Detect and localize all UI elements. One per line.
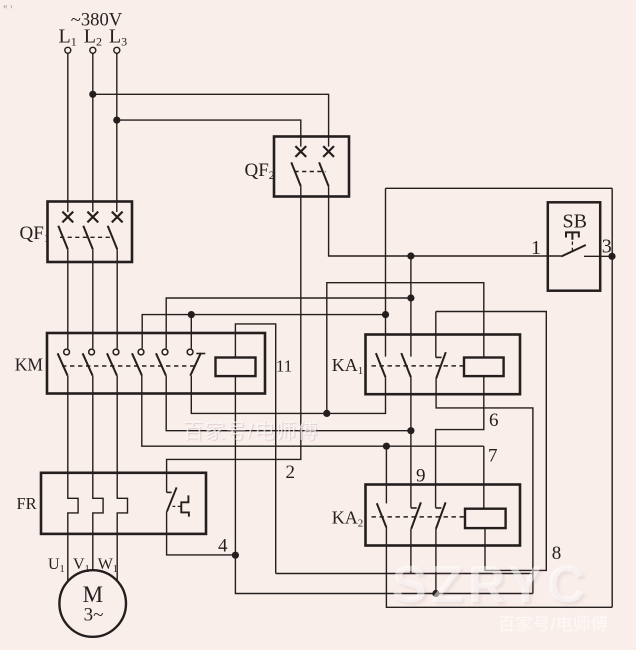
QF2 pole 1 X mark	[295, 146, 306, 157]
svg-text:7: 7	[488, 446, 498, 467]
KA2 linkage dashed line	[372, 516, 466, 518]
svg-text:M: M	[83, 582, 103, 607]
QF1 pole 1 X mark	[62, 212, 73, 223]
KA1 contact 1 blade	[376, 353, 386, 377]
wire from QF2 right pole to SB contact	[329, 186, 562, 256]
svg-text:4: 4	[218, 536, 228, 557]
junction SB terminal 3	[608, 253, 615, 260]
KM contact 3 blade	[107, 353, 117, 375]
wire node 6 horizontal rail from node 11	[276, 573, 533, 575]
thermal relay FR box	[41, 473, 206, 534]
terminal circle L3	[114, 47, 120, 53]
QF2 pole 2 X mark	[323, 146, 334, 157]
svg-text:6: 6	[489, 410, 499, 431]
QF1 linkage dashed line	[60, 236, 111, 238]
relay KA1 box	[366, 335, 521, 395]
QF1 pole 2 blade	[83, 226, 93, 250]
wire L1 QF1 to KM contact	[67, 249, 69, 348]
wire KM contact6 bottom to KA1 contact1 rail	[191, 376, 385, 414]
wire right-side vertical node 3 to node 8 bottom	[611, 188, 613, 607]
wire L3 QF1 to KM contact	[116, 249, 118, 348]
wire KA2 contact3 bottom	[435, 529, 437, 594]
svg-text:1: 1	[531, 237, 541, 259]
FR heater 1 phase wire L1 to motor	[68, 376, 78, 582]
relay KA2 box	[366, 485, 521, 546]
KM coil wire top with node 11 bridge	[235, 324, 275, 574]
junction KM coil bottom node 4	[232, 552, 239, 559]
svg-text:百家号/电师傅: 百家号/电师傅	[183, 420, 319, 443]
FR heater 3 phase wire L3 to motor	[117, 376, 127, 581]
KA1 contact 3 NC tick	[436, 356, 442, 358]
wire from L2 junction to QF2 right pole	[93, 94, 329, 146]
wire node 7 down to KA2 coil top	[483, 446, 485, 509]
terminal circle L1	[65, 47, 71, 53]
svg-text:11: 11	[276, 356, 292, 375]
KM linkage dashed line	[62, 365, 197, 367]
KA1 coil bottom wire to KA2 contact3	[436, 376, 484, 508]
wire KM contact 6 top stub	[190, 315, 192, 349]
wire L3 vertical to QF1	[116, 53, 118, 212]
svg-text:SZRYC: SZRYC	[392, 556, 589, 614]
junction at KM aux feed	[407, 294, 414, 301]
wire node 1 branch down to KM aux contact 5	[166, 256, 411, 349]
wire KA1 contact 2 top stub	[410, 298, 412, 357]
SB operator dashed link	[571, 242, 573, 253]
wire node 8 loop KA1 contact3 top to KA2 coil bottom	[436, 312, 547, 571]
junction KM contact6 tap	[188, 311, 195, 318]
terminal circle L2	[90, 47, 96, 53]
wire KA1 coil top loop	[327, 283, 484, 414]
KA2 contact 2 NC tick	[411, 507, 417, 509]
junction node 1 branch	[407, 252, 414, 259]
QF1 pole 1 blade	[58, 226, 68, 250]
coil KA1	[464, 358, 504, 377]
junction KA2 contact1 top tap	[383, 443, 390, 450]
KM contact 6 hook	[187, 349, 193, 355]
wire L2 vertical to QF1	[92, 53, 94, 212]
KM contact 6 NC blade	[190, 353, 201, 376]
FR trip contact top stub with NC tick	[167, 491, 172, 493]
QF1 pole 3 X mark	[112, 212, 123, 223]
QF1 pole 3 blade	[108, 226, 118, 250]
wire node 9 KA1 contact2 to KA2 contact2	[410, 377, 412, 508]
KM contact 1 blade	[58, 353, 68, 375]
KA1 linkage dashed line	[372, 365, 465, 367]
wire to KM aux contacts 4 and 6	[142, 315, 385, 349]
junction KA1 contact1 top	[382, 311, 389, 318]
wire node 2 from QF2 left pole down to FR trip contact	[167, 186, 301, 492]
contactor KM box	[47, 333, 265, 394]
KA1 contact 3 NC blade	[436, 352, 446, 379]
wire from L3 junction to QF2 left pole	[117, 120, 301, 147]
motor M circle	[59, 570, 126, 637]
wire KA2 contact1 bottom to node 3 rail	[386, 528, 612, 608]
wire node 3 top horizontal	[386, 187, 613, 189]
QF2 linkage dashed line	[295, 171, 326, 173]
SB contact blade	[561, 245, 586, 257]
KM contact 1 hook	[64, 349, 70, 355]
coil KM	[216, 358, 256, 377]
KM contact 3 hook	[113, 349, 119, 355]
svg-text:3~: 3~	[84, 605, 104, 626]
KA2 contact 3 NC blade	[436, 502, 446, 529]
KM contact 4 blade	[132, 353, 142, 375]
SB button operator	[566, 232, 579, 239]
junction on L2	[89, 91, 96, 98]
svg-text:FR: FR	[17, 494, 37, 513]
KA2 contact 3 NC tick	[436, 507, 442, 509]
KM coil wire bottom	[234, 376, 236, 555]
wire FR trip bottom to node 4	[167, 512, 236, 555]
junction on L3	[113, 117, 120, 124]
svg-text:百家号/电师傅: 百家号/电师傅	[498, 615, 608, 634]
KM contact 6 NC tick	[196, 353, 205, 355]
QF2 pole 2 blade	[319, 162, 329, 186]
svg-text:KM: KM	[15, 355, 44, 375]
wire node 6 KA1 contact3 bottom	[436, 379, 533, 594]
wire SB right side to node 3	[584, 255, 612, 257]
FR trip contact dashed link	[173, 505, 182, 507]
wire KM contact5 bottom to node 9 tap	[166, 376, 411, 431]
QF1 pole 2 X mark	[87, 212, 98, 223]
push button SB box	[548, 202, 600, 290]
FR trip contact blade	[167, 487, 177, 511]
KM contact 4 hook	[138, 349, 144, 355]
svg-text:SB: SB	[563, 211, 587, 233]
FR trip release symbol	[181, 495, 189, 516]
KA1 contact 2 blade	[401, 353, 411, 377]
KA2 contact 1 blade	[377, 503, 387, 527]
FR heater 2 phase wire L2 to motor	[93, 376, 103, 571]
circuit breaker QF1 box	[48, 202, 133, 263]
wire L1 vertical to QF1	[67, 53, 69, 212]
svg-text:2: 2	[286, 462, 296, 483]
KA1 contact 3 top stub from node 8 loop	[435, 312, 437, 358]
wire KA2 contact2 bottom to node 6 rail	[410, 529, 412, 574]
wire node 4 rail bottom horizontal	[235, 555, 533, 593]
junction node 9 tap	[407, 427, 414, 434]
coil KA2	[465, 509, 506, 528]
wire KA2 contact1 top stub	[385, 446, 387, 503]
QF2 pole 1 blade	[291, 162, 301, 186]
junction KA2 contact3 bottom on node 4 rail	[432, 590, 439, 597]
svg-text:« ›: « ›	[3, 1, 13, 11]
wire node 3 left vertical	[385, 188, 387, 356]
circuit breaker QF2 box	[274, 137, 349, 197]
KM contact 2 hook	[89, 349, 95, 355]
KM contact 2 blade	[83, 353, 93, 375]
junction KA1 coil-top tap on rail	[323, 410, 330, 417]
wire KM contact4 bottom to node 7 rail	[142, 376, 484, 447]
KM contact 5 blade	[156, 353, 166, 375]
KA2 contact 2 NC blade	[411, 502, 421, 529]
svg-text:3: 3	[602, 236, 612, 258]
wire L2 QF1 to KM contact	[92, 249, 94, 348]
KM contact 5 hook	[162, 349, 168, 355]
